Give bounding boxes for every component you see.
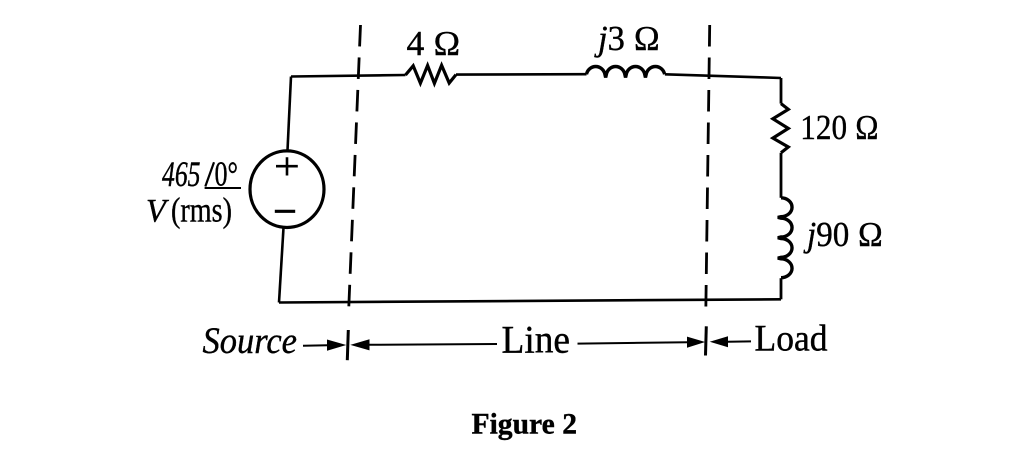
svg-text:Figure 2: Figure 2 xyxy=(472,408,578,441)
arrowhead right at tick 1 xyxy=(327,340,346,351)
arrow line Line label left xyxy=(370,343,498,346)
arrowhead left at tick 2 xyxy=(710,336,728,347)
arrowhead right at tick 2 xyxy=(687,337,705,348)
wire bottom-left (corner up to source bottom) xyxy=(279,228,284,303)
svg-text:4 Ω: 4 Ω xyxy=(407,24,461,63)
bottom wire xyxy=(279,299,781,302)
svg-text:j90 Ω: j90 Ω xyxy=(803,215,883,254)
angle slash xyxy=(205,162,214,186)
wire between resistor and inductor xyxy=(456,73,587,76)
wire source top to top-left corner xyxy=(288,77,292,151)
svg-text:Line: Line xyxy=(502,319,571,362)
dashed boundary line 2 (line/load) xyxy=(706,25,710,312)
dashed boundary line 1 (source/line) xyxy=(349,25,361,314)
angle underline xyxy=(205,187,241,189)
wire j90ohm to bottom-right corner xyxy=(780,278,783,299)
arrow line to Load label xyxy=(728,340,751,342)
wire top-left segment (top-left corner to resistor R) xyxy=(291,75,406,77)
tick mark 2 on arrow row xyxy=(704,326,708,355)
svg-text:j3 Ω: j3 Ω xyxy=(594,19,660,58)
wire between 120ohm and j90ohm xyxy=(780,153,783,198)
wire right side top (corner down to resistor 120) xyxy=(780,78,783,104)
svg-text:Source: Source xyxy=(203,321,298,362)
inductor j3ohm (4 humps) xyxy=(587,67,665,78)
svg-text:Load: Load xyxy=(755,318,828,359)
svg-text:V: V xyxy=(146,193,169,229)
plus sign inside source xyxy=(276,157,298,175)
svg-text:(rms): (rms) xyxy=(171,191,232,230)
wire inductor to top-right corner xyxy=(665,74,781,78)
svg-text:120 Ω: 120 Ω xyxy=(800,108,879,147)
resistor 4ohm zigzag xyxy=(406,65,457,83)
arrow line Line label right xyxy=(578,342,689,343)
resistor 120ohm zigzag vertical xyxy=(773,104,788,153)
inductor j90ohm (4 humps, bulge right) xyxy=(778,198,792,278)
tick mark 1 on arrow row xyxy=(347,330,348,360)
arrow line from Source label xyxy=(303,344,328,347)
voltage source Vs circle xyxy=(250,151,324,228)
arrowhead left at tick 1 xyxy=(350,339,369,350)
minus sign inside source xyxy=(275,210,295,213)
svg-text:465: 465 xyxy=(162,154,201,194)
